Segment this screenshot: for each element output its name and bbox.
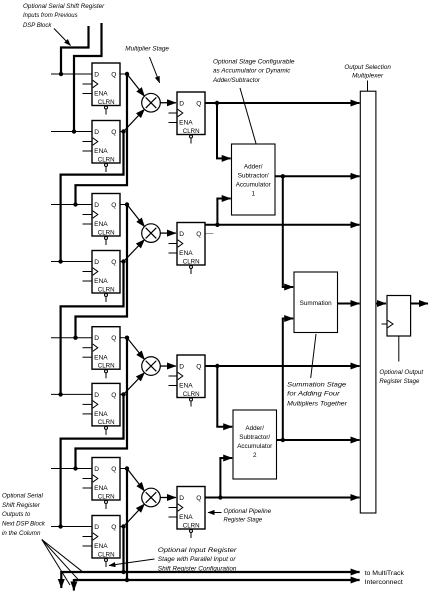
svg-text:ENA: ENA xyxy=(179,383,193,390)
svg-text:ENA: ENA xyxy=(94,485,108,492)
svg-text:ENA: ENA xyxy=(94,148,108,155)
label: Summation Stage xyxy=(287,334,347,407)
wire: ENA stub of P2 xyxy=(169,252,178,254)
wire: P1.Q to output mux (bypass) xyxy=(205,102,360,104)
wire: clock stub of R5 xyxy=(83,347,93,349)
wire: output register Q to interconnect xyxy=(411,303,428,305)
wire: ENA stub of R1 xyxy=(83,93,93,95)
svg-text:Q: Q xyxy=(111,335,116,342)
wire: scan chain R6.Q to R8.D xyxy=(61,394,124,526)
adder U2 Adder/Subtractor/Accumulator 2 xyxy=(233,410,277,479)
junction chain on R8.D xyxy=(58,524,62,528)
wire: D input line of R3 xyxy=(51,204,92,206)
wire: adder U1 output to output mux xyxy=(275,175,360,177)
wire: R8.Q to multiplier M4 input xyxy=(124,504,145,527)
svg-text:Q: Q xyxy=(111,466,116,473)
svg-text:CLRN: CLRN xyxy=(183,258,200,265)
CLRN inverter bubble of R4 xyxy=(105,294,108,297)
wire: clock stub of R1 xyxy=(83,83,93,85)
wire: R7.Q to multiplier M4 input xyxy=(127,469,145,492)
svg-text:CLRN: CLRN xyxy=(98,286,115,293)
CLRN inverter bubble of R2 xyxy=(105,164,108,167)
svg-text:D: D xyxy=(179,231,184,238)
svg-text:Shift Register: Shift Register xyxy=(2,502,41,509)
junction at R6.Q xyxy=(121,392,125,396)
svg-text:ENA: ENA xyxy=(179,514,193,521)
svg-text:D: D xyxy=(94,71,99,78)
junction chain on R4.D xyxy=(58,259,62,263)
wire: clock stub of P3 xyxy=(169,375,178,377)
svg-text:CLRN: CLRN xyxy=(98,99,115,106)
wire: ENA stub of P4 xyxy=(169,516,178,518)
svg-text:2: 2 xyxy=(253,452,257,459)
wire: Q output stub of R7 xyxy=(120,468,127,470)
wire: D input line of R5 xyxy=(51,337,92,339)
svg-text:Accumulator: Accumulator xyxy=(236,182,271,189)
register P4 xyxy=(169,487,206,539)
svg-text:Q: Q xyxy=(111,129,116,136)
register R1 xyxy=(51,63,120,115)
svg-text:D: D xyxy=(94,466,99,473)
wire: R1.Q to multiplier M1 input xyxy=(127,74,145,96)
svg-text:DSP Block: DSP Block xyxy=(23,22,52,29)
wire: D input line of R6 xyxy=(51,393,92,395)
wire: serial output bus 1 to MultiTrack xyxy=(61,571,359,573)
svg-text:CLRN: CLRN xyxy=(183,391,200,398)
svg-text:Adder/Subtractor: Adder/Subtractor xyxy=(212,77,261,84)
svg-text:CLRN: CLRN xyxy=(98,493,115,500)
clock input triangle of P4 xyxy=(178,504,183,511)
wire: summation output to output mux xyxy=(338,303,360,305)
junction P2.Q branch xyxy=(215,223,219,227)
svg-text:ENA: ENA xyxy=(94,278,108,285)
wire: R2.Q to multiplier M1 input xyxy=(124,109,145,131)
label: Optional Input Register Stage xyxy=(109,547,237,572)
svg-text:Optional Input Register: Optional Input Register xyxy=(158,547,238,554)
wire: P2.Q branch up to adder U1 input xyxy=(216,199,218,225)
register R3 xyxy=(51,194,120,246)
junction chain on R5.D xyxy=(73,336,77,340)
svg-text:CLRN: CLRN xyxy=(98,156,115,163)
junction serial input B on R2.D xyxy=(72,129,76,133)
wire: P2.Q to output mux (bypass) xyxy=(206,224,360,226)
wire: clock stub of R4 xyxy=(83,271,93,273)
svg-text:Q: Q xyxy=(196,231,201,238)
output register R9 xyxy=(387,296,411,337)
wire: multiplier M1 output to pipeline register P1.D xyxy=(160,102,176,104)
svg-text:for Adding Four: for Adding Four xyxy=(287,391,340,398)
svg-text:Multipliers Together: Multipliers Together xyxy=(287,400,347,407)
svg-text:CLRN: CLRN xyxy=(98,229,115,236)
wire: clock stub of R7 xyxy=(83,478,93,480)
label: Optional Pipeline Register Stage xyxy=(208,508,271,523)
CLRN inverter bubble of R1 xyxy=(105,106,108,109)
svg-text:Q: Q xyxy=(196,100,201,107)
svg-text:ENA: ENA xyxy=(94,91,108,98)
wire: arrow into adder U2 input 1 xyxy=(216,426,232,428)
register R8 xyxy=(51,516,120,568)
label: Multiplier Stage xyxy=(125,45,169,82)
svg-text:Next DSP Block: Next DSP Block xyxy=(2,521,45,528)
CLRN inverter bubble of P4 xyxy=(190,530,193,533)
CLRN inverter bubble of R8 xyxy=(105,559,108,562)
CLRN stub wire of R7 xyxy=(105,504,107,509)
svg-text:D: D xyxy=(94,259,99,266)
wire: scan chain R1.Q to R3.D xyxy=(76,74,128,205)
register P3 xyxy=(169,355,206,407)
label: optional serial shift register outputs xyxy=(2,492,82,585)
wire: D input line of R8 xyxy=(51,526,92,528)
CLRN inverter bubble of P2 xyxy=(190,266,193,269)
svg-text:Inputs from Previous: Inputs from Previous xyxy=(23,12,78,19)
junction at R7.Q xyxy=(125,466,129,470)
svg-text:Q: Q xyxy=(111,71,116,78)
wire: ENA stub of P1 xyxy=(169,122,178,124)
junction at R1.Q xyxy=(125,72,129,76)
svg-text:Multiplexer: Multiplexer xyxy=(352,73,384,80)
junction P4.Q branch xyxy=(218,495,222,499)
svg-text:ENA: ENA xyxy=(179,120,193,127)
clock input triangle of R5 xyxy=(93,344,98,351)
wire: Q output stub of R2 xyxy=(120,131,124,133)
svg-text:1: 1 xyxy=(251,191,255,198)
wire: Q output stub of R4 xyxy=(120,261,124,263)
wire: scan chain R2.Q to R4.D xyxy=(61,132,124,262)
clock input triangle of R9 xyxy=(388,320,393,327)
label: to MultiTrack Interconnect xyxy=(365,570,405,586)
svg-text:Shift Register Configuration: Shift Register Configuration xyxy=(158,565,237,572)
wire: ENA stub of P3 xyxy=(169,385,178,387)
junction R8 chain on bus 1 xyxy=(121,570,125,574)
wire: clock stub of R3 xyxy=(83,214,93,216)
multiplier M1 xyxy=(142,93,161,112)
svg-text:ENA: ENA xyxy=(94,354,108,361)
CLRN inverter bubble of P1 xyxy=(190,135,193,138)
svg-text:ENA: ENA xyxy=(94,543,108,550)
wire: scan chain R5.Q to R7.D xyxy=(76,338,128,469)
wire: ENA stub of R6 xyxy=(83,413,93,415)
wire: ENA stub of R3 xyxy=(83,223,93,225)
svg-text:D: D xyxy=(179,495,184,502)
wire: R4.Q to multiplier M2 input xyxy=(124,240,145,262)
CLRN stub wire of R3 xyxy=(105,240,107,245)
register R7 xyxy=(51,458,120,510)
svg-text:D: D xyxy=(94,524,99,531)
svg-text:Q: Q xyxy=(111,392,116,399)
wire: ENA stub of R7 xyxy=(83,487,93,489)
wire: arrow into adder U2 input 2 xyxy=(219,457,232,459)
svg-text:ENA: ENA xyxy=(94,411,108,418)
svg-text:Register Stage: Register Stage xyxy=(379,378,419,385)
svg-text:Summation Stage: Summation Stage xyxy=(287,381,346,388)
svg-text:D: D xyxy=(94,392,99,399)
wire: ENA stub of R4 xyxy=(83,280,93,282)
svg-text:Subtractor/: Subtractor/ xyxy=(238,173,269,180)
CLRN stub wire of R6 xyxy=(105,430,107,435)
svg-text:D: D xyxy=(179,363,184,370)
svg-text:D: D xyxy=(94,202,99,209)
svg-text:D: D xyxy=(179,100,184,107)
wire: R6.Q to multiplier M3 input xyxy=(124,372,145,394)
clock input triangle of R4 xyxy=(93,268,98,275)
svg-text:Accumulator: Accumulator xyxy=(237,443,272,450)
CLRN stub wire of R2 xyxy=(105,167,107,172)
CLRN stub wire of R4 xyxy=(105,297,107,302)
CLRN stub wire of R1 xyxy=(105,109,107,114)
svg-text:CLRN: CLRN xyxy=(98,363,115,370)
wire: P4.Q branch up to adder U2 input xyxy=(219,458,221,498)
wire: serial output bus 1 drop to next DSP block xyxy=(60,571,62,588)
register R6 xyxy=(51,383,120,435)
wire: scan chain R8.Q down to serial output bus 1 xyxy=(122,527,124,573)
svg-text:Q: Q xyxy=(196,363,201,370)
junction at R2.Q xyxy=(121,129,125,133)
wire: scan chain R3.Q to R5.D xyxy=(76,205,128,338)
wire: ENA stub of R2 xyxy=(83,150,93,152)
junction U1 output branch xyxy=(281,174,285,178)
adder U1 Adder/Subtractor/Accumulator 1 xyxy=(232,144,276,215)
wire: scan chain R4.Q to R6.D xyxy=(61,262,124,395)
summation unit U3 xyxy=(294,272,338,333)
wire: scan chain R7.Q down to serial output bus 2 xyxy=(126,469,128,581)
wire: multiplier M3 output to pipeline register P3.D xyxy=(160,365,176,367)
junction P1.Q branch xyxy=(215,101,219,105)
wire: Q output stub of R3 xyxy=(120,204,127,206)
wire: serial output bus 2 to MultiTrack xyxy=(74,579,360,581)
wire: R3.Q to multiplier M2 input xyxy=(127,205,145,227)
svg-text:ENA: ENA xyxy=(94,221,108,228)
clock input triangle of P2 xyxy=(178,240,183,247)
CLRN stub wire of P1 xyxy=(190,138,192,143)
junction at R8.Q xyxy=(121,524,125,528)
wire: arrow into summation input 2 xyxy=(282,318,293,320)
clock input triangle of R7 xyxy=(93,475,98,482)
CLRN inverter bubble of R3 xyxy=(105,237,108,240)
wire: clock stub of P1 xyxy=(169,112,178,114)
svg-text:Q: Q xyxy=(196,495,201,502)
wire: D input line of R1 xyxy=(51,73,92,75)
junction chain on R3.D xyxy=(73,202,77,206)
CLRN inverter bubble of R5 xyxy=(105,370,108,373)
wire: arrow into adder U1 input 1 xyxy=(216,157,231,159)
junction at R5.Q xyxy=(125,336,129,340)
svg-text:CLRN: CLRN xyxy=(98,551,115,558)
svg-text:D: D xyxy=(94,129,99,136)
svg-text:Optional Serial Shift Register: Optional Serial Shift Register xyxy=(23,3,105,10)
wire: serial shift input A from previous DSP block xyxy=(61,26,89,74)
svg-text:Adder/: Adder/ xyxy=(245,425,264,432)
wire: output mux to output register xyxy=(376,303,386,305)
CLRN stub wire of R5 xyxy=(105,373,107,378)
wire: clock stub of R2 xyxy=(83,141,93,143)
wire: P3.Q to output mux (bypass) xyxy=(205,365,360,367)
wire: Q output stub of R5 xyxy=(120,337,127,339)
CLRN inverter bubble of R7 xyxy=(105,501,108,504)
junction serial input A on R1.D xyxy=(59,72,63,76)
svg-text:ENA: ENA xyxy=(179,250,193,257)
wire: P3.Q branch down to adder U2 input xyxy=(216,366,218,427)
clock input triangle of R2 xyxy=(93,138,98,145)
wire: ENA stub of R8 xyxy=(83,545,93,547)
svg-text:D: D xyxy=(94,335,99,342)
wire: Q output stub of R6 xyxy=(120,393,124,395)
wire: R5.Q to multiplier M3 input xyxy=(127,338,145,360)
svg-text:CLRN: CLRN xyxy=(98,419,115,426)
wire: P2.Q short stub xyxy=(206,233,214,235)
clock input triangle of R1 xyxy=(93,80,98,87)
junction R7 chain on bus 2 xyxy=(125,578,129,582)
label: optional serial shift register inputs xyxy=(23,3,105,46)
CLRN inverter bubble of P3 xyxy=(190,398,193,401)
output selection multiplexer U4 xyxy=(360,91,376,513)
CLRN stub wire of P2 xyxy=(190,269,192,274)
register R4 xyxy=(51,251,120,303)
wire: multiplier M2 output to pipeline register P2.D xyxy=(160,232,176,234)
clock input triangle of R3 xyxy=(93,211,98,218)
register P2 xyxy=(169,223,206,275)
label: Optional Output Register Stage xyxy=(379,337,424,385)
clock input triangle of P3 xyxy=(178,372,183,379)
label: optional stage configurable xyxy=(212,58,295,143)
wire: serial output bus 2 drop to next DSP block xyxy=(73,579,75,591)
svg-text:Outputs to: Outputs to xyxy=(2,511,30,518)
wire: D input line of R7 xyxy=(51,468,92,470)
junction at R4.Q xyxy=(121,259,125,263)
wire: Q output stub of R1 xyxy=(120,73,127,75)
svg-text:Q: Q xyxy=(111,524,116,531)
clock input triangle of P1 xyxy=(178,109,183,116)
multiplier M4 xyxy=(142,488,161,507)
wire: arrow into adder U1 input 2 xyxy=(216,198,230,200)
wire: U1 output branch down to summation xyxy=(282,176,284,287)
svg-text:as Accumulator or Dynamic: as Accumulator or Dynamic xyxy=(213,68,291,75)
junction U2 output branch xyxy=(281,438,285,442)
wire: clock stub of P2 xyxy=(169,243,178,245)
svg-text:Multiplier Stage: Multiplier Stage xyxy=(125,45,169,52)
CLRN inverter bubble of R6 xyxy=(105,426,108,429)
svg-text:Optional Serial: Optional Serial xyxy=(2,492,43,499)
wire: P1.Q branch down to adder U1 input xyxy=(216,103,218,158)
CLRN stub wire of P4 xyxy=(190,533,192,538)
svg-text:in the Column: in the Column xyxy=(2,530,41,537)
junction P3.Q branch xyxy=(215,364,219,368)
svg-text:Interconnect: Interconnect xyxy=(365,579,403,586)
CLRN stub wire of P3 xyxy=(190,401,192,406)
svg-text:CLRN: CLRN xyxy=(183,128,200,135)
svg-text:Optional Pipeline: Optional Pipeline xyxy=(224,508,272,515)
wire: adder U2 output to output mux xyxy=(277,439,360,441)
svg-text:to MultiTrack: to MultiTrack xyxy=(365,570,405,577)
svg-text:Optional Stage Configurable: Optional Stage Configurable xyxy=(213,58,295,65)
wire: output register clock stub xyxy=(382,323,388,325)
wire: arrow into summation input 1 xyxy=(282,286,293,288)
wire: D input line of R2 xyxy=(51,131,92,133)
multiplier M2 xyxy=(142,224,161,243)
wire: P4.Q to output mux (bypass) xyxy=(205,497,360,499)
register P1 xyxy=(169,92,206,144)
wire: serial shift input B from previous DSP block xyxy=(74,23,102,132)
svg-text:Summation: Summation xyxy=(300,300,332,307)
svg-text:Stage with Parallel Input or: Stage with Parallel Input or xyxy=(158,556,236,563)
svg-text:Output Selection: Output Selection xyxy=(344,64,391,71)
svg-text:Q: Q xyxy=(111,202,116,209)
wire: U2 output branch up to summation xyxy=(282,319,284,441)
CLRN stub wire of R8 xyxy=(105,562,107,567)
wire: D input line of R4 xyxy=(51,261,92,263)
svg-text:Q: Q xyxy=(111,259,116,266)
register R2 xyxy=(51,121,120,173)
junction at R3.Q xyxy=(125,202,129,206)
wire: ENA stub of R5 xyxy=(83,356,93,358)
wire: clock stub of R6 xyxy=(83,403,93,405)
clock input triangle of R8 xyxy=(93,533,98,540)
register R5 xyxy=(51,327,120,379)
junction chain on R7.D xyxy=(73,466,77,470)
svg-text:Optional Output: Optional Output xyxy=(379,369,424,376)
clock input triangle of R6 xyxy=(93,401,98,408)
wire: Q output stub of R8 xyxy=(120,526,124,528)
wire: clock stub of R8 xyxy=(83,536,93,538)
wire: clock stub of P4 xyxy=(169,507,178,509)
svg-text:CLRN: CLRN xyxy=(183,522,200,529)
wire: multiplier M4 output to pipeline register P4.D xyxy=(160,497,176,499)
junction chain on R6.D xyxy=(58,392,62,396)
label: Output Selection Multiplexer xyxy=(344,64,391,91)
svg-text:Subtractor/: Subtractor/ xyxy=(239,434,270,441)
svg-text:Adder/: Adder/ xyxy=(244,164,263,171)
multiplier M3 xyxy=(142,357,161,376)
svg-text:Register Stage: Register Stage xyxy=(224,516,263,523)
